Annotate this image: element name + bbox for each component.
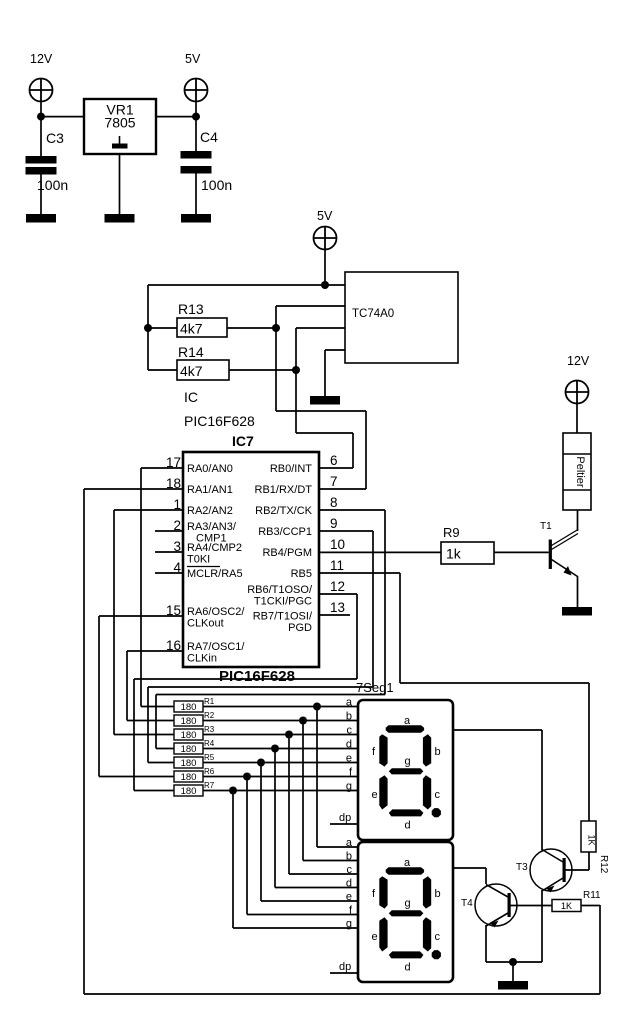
pin 9 RB3/CCP1 label xyxy=(258,516,337,538)
power symbol 5V (sensor) xyxy=(314,209,337,250)
wire segment f vertical xyxy=(246,777,248,915)
svg-text:b: b xyxy=(435,746,441,758)
resistor R3 180 xyxy=(174,725,215,741)
svg-text:12V: 12V xyxy=(30,52,53,66)
wire RB1 riser xyxy=(365,411,367,489)
wire segment f to display2 xyxy=(247,914,358,916)
wire RA0 vertical to R1 xyxy=(140,468,142,707)
svg-text:RA0/AN0: RA0/AN0 xyxy=(187,463,233,475)
pin 16 RA7/OSC1/ label xyxy=(166,638,245,665)
svg-text:6: 6 xyxy=(330,453,338,468)
display 7Seg1 digit1 decimal point xyxy=(432,808,441,817)
wire SDA vertical riser xyxy=(275,306,277,411)
display 7Seg1 digit1 segment a xyxy=(386,725,424,733)
display 7Seg1 digit2 segment c xyxy=(423,917,431,951)
wire into R5 xyxy=(148,762,174,764)
svg-text:T1: T1 xyxy=(540,521,552,532)
display 7Seg1 digit1 segment g xyxy=(389,768,424,774)
pin 4 MCLR/RA5 label xyxy=(173,560,242,580)
svg-text:PIC16F628: PIC16F628 xyxy=(219,668,295,685)
wire pin7 RB1 xyxy=(319,488,366,490)
wire pin2 stub xyxy=(155,530,183,532)
power symbol 12V (input) xyxy=(30,52,53,102)
pin 6 RB0/INT label xyxy=(270,453,338,475)
wire bottom bus RA1 to R11 xyxy=(84,993,600,995)
svg-text:RA1/AN1: RA1/AN1 xyxy=(187,484,233,496)
wire 5V rail to TC74A0 VCC xyxy=(148,284,345,286)
wire 12V to C3 xyxy=(40,102,42,157)
svg-text:IC: IC xyxy=(184,389,198,405)
svg-text:180: 180 xyxy=(181,744,197,755)
svg-text:c: c xyxy=(347,864,353,876)
wire R12 to T3 base xyxy=(588,852,590,870)
power symbol 5V (output) xyxy=(185,52,208,102)
wire RA2 vertical to R3 xyxy=(113,510,115,735)
svg-text:e: e xyxy=(372,789,378,801)
svg-text:5V: 5V xyxy=(185,52,201,66)
wire pin4 stub xyxy=(155,572,183,574)
wire into R4 xyxy=(156,748,174,750)
svg-text:a: a xyxy=(346,697,353,709)
wire segment d to display2 xyxy=(275,887,358,889)
svg-text:RB4/PGM: RB4/PGM xyxy=(262,547,312,559)
node 5V sensor rail xyxy=(321,281,329,289)
svg-text:T3: T3 xyxy=(516,862,528,873)
svg-text:Peltier: Peltier xyxy=(574,456,586,488)
svg-text:RB7/T1OSI/: RB7/T1OSI/ xyxy=(253,611,313,623)
svg-text:R6: R6 xyxy=(204,767,215,776)
wire 5V to rail xyxy=(324,250,326,285)
pin 13 RB7/T1OSI/ label xyxy=(253,600,345,634)
resistor R11 1K xyxy=(552,890,601,912)
wire to ground xyxy=(512,962,514,981)
svg-text:RA2/AN2: RA2/AN2 xyxy=(187,505,233,517)
svg-text:180: 180 xyxy=(181,702,197,713)
wire rail to R14 xyxy=(148,369,177,371)
display 7Seg1 digit2 segment d xyxy=(389,951,424,958)
wire segment c vertical xyxy=(288,735,290,875)
wire RB0 riser xyxy=(352,433,354,468)
wire R6 to display1 pin f xyxy=(203,776,358,778)
svg-text:c: c xyxy=(435,789,441,801)
svg-text:RA6/OSC2/: RA6/OSC2/ xyxy=(187,606,245,618)
node segment e xyxy=(257,759,265,767)
pin 1 RA2/AN2 label xyxy=(173,497,232,517)
node 5V rail junction xyxy=(192,113,200,121)
wire T4 emitter down xyxy=(485,925,487,962)
wire rail to R13 xyxy=(148,327,177,329)
svg-text:R4: R4 xyxy=(204,739,215,748)
svg-text:a: a xyxy=(404,715,411,727)
display 7Seg1 digit2 segment e xyxy=(379,917,387,951)
svg-text:RA7/OSC1/: RA7/OSC1/ xyxy=(187,641,245,653)
svg-text:8: 8 xyxy=(330,495,338,510)
svg-text:d: d xyxy=(346,739,352,751)
wire SDA to TC74A0 xyxy=(276,305,345,307)
svg-text:R12: R12 xyxy=(598,855,609,874)
wire emitters join xyxy=(486,961,542,963)
svg-text:e: e xyxy=(346,891,352,903)
wire segment e vertical xyxy=(260,763,262,902)
wire 12V to VR1 input xyxy=(41,116,85,118)
svg-text:R11: R11 xyxy=(583,890,601,901)
resistor R7 180 xyxy=(174,781,215,797)
display 7Seg1 digit1 segment f xyxy=(379,734,387,766)
svg-text:d: d xyxy=(405,961,411,973)
pin 15 RA6/OSC2/ label xyxy=(166,603,245,630)
node 12V rail junction xyxy=(37,113,45,121)
wire T4 base to R11 xyxy=(511,905,553,907)
wire pin1 RA2 xyxy=(114,509,183,511)
wire R7 to display1 pin g xyxy=(203,790,358,792)
svg-text:R9: R9 xyxy=(443,525,460,540)
display 7Seg1 digit2 segment a xyxy=(386,867,424,875)
svg-text:R3: R3 xyxy=(204,725,215,734)
svg-text:RB0/INT: RB0/INT xyxy=(270,463,312,475)
wire T3 emitter down xyxy=(541,890,543,962)
wire RB6 across under PIC xyxy=(134,678,357,680)
wire pin18 RA1 xyxy=(84,488,183,490)
pin 8 RB2/TX/CK label xyxy=(255,495,337,517)
svg-text:R7: R7 xyxy=(204,781,215,790)
wire 5V rail down to pullups xyxy=(147,285,149,370)
display 7Seg1 digit2 outline xyxy=(358,842,453,982)
pin 10 RB4/PGM label xyxy=(262,537,345,559)
display 7Seg1 digit2 segment g xyxy=(389,910,424,916)
power symbol 12V (Peltier) xyxy=(566,354,590,404)
wire segment c to display2 xyxy=(289,873,358,875)
pin 12 RB6/T1OSO/ label xyxy=(247,579,345,608)
wire RB3 down to R5 xyxy=(147,687,149,763)
svg-text:RB6/T1OSO/: RB6/T1OSO/ xyxy=(247,584,313,596)
resistor R14 4k7 xyxy=(177,344,229,380)
wire RA7 vertical to R2 xyxy=(126,651,128,721)
voltage regulator VR1 7805 xyxy=(84,99,156,154)
wire segment d vertical xyxy=(274,749,276,888)
pin 11 RB5 label xyxy=(291,558,344,580)
pin 2 RA3/AN3/ label xyxy=(173,518,236,545)
svg-text:180: 180 xyxy=(181,758,197,769)
wire RB6 vertical down xyxy=(356,594,358,679)
display 7Seg1 digit1 segment c xyxy=(423,775,431,809)
svg-text:g: g xyxy=(346,781,352,793)
display 7Seg1 digit2 segment f xyxy=(379,876,387,908)
svg-text:a: a xyxy=(404,857,411,869)
wire VR1 ground pin xyxy=(119,154,121,214)
wire segment a to display2 xyxy=(317,846,358,848)
wire segment g vertical xyxy=(232,791,234,929)
svg-text:RB3/CCP1: RB3/CCP1 xyxy=(258,526,312,538)
svg-text:CLKout: CLKout xyxy=(187,618,224,630)
wire R14 to SCL node xyxy=(229,369,296,371)
wire RB2 down to R4 xyxy=(155,695,157,749)
wire R13 to SDA node xyxy=(227,327,276,329)
wire pin6 RB0 xyxy=(319,467,353,469)
wire into R1 xyxy=(141,706,174,708)
wire pin11 RB5 xyxy=(319,572,400,574)
wire pin13 stub xyxy=(319,614,350,616)
wire T1 emitter to ground xyxy=(577,576,579,607)
wire PIC RB4 to R9 xyxy=(319,551,441,553)
display 7Seg1 digit1 segment e xyxy=(379,775,387,809)
svg-text:R2: R2 xyxy=(204,711,215,720)
svg-text:12: 12 xyxy=(330,579,345,594)
display 7Seg1 digit2 segment b xyxy=(423,876,431,908)
wire segment a vertical xyxy=(316,707,318,848)
wire display2 common down to T4 xyxy=(485,868,487,884)
svg-text:5V: 5V xyxy=(317,209,333,223)
svg-text:MCLR/RA5: MCLR/RA5 xyxy=(187,568,243,580)
svg-text:TC74A0: TC74A0 xyxy=(352,308,394,320)
resistor R1 180 xyxy=(174,697,215,713)
svg-text:IC7: IC7 xyxy=(232,433,254,449)
svg-text:CLKin: CLKin xyxy=(187,653,217,665)
svg-text:180: 180 xyxy=(181,786,197,797)
wire down to R12 top xyxy=(588,683,590,821)
svg-text:c: c xyxy=(347,725,353,737)
wire R9 to T1 base xyxy=(494,551,549,553)
ground (T3/T4) xyxy=(498,981,528,990)
svg-text:180: 180 xyxy=(181,730,197,741)
wire display1 common down to T3 xyxy=(541,730,543,850)
svg-text:dp: dp xyxy=(339,812,351,824)
pin 3 RA4/CMP2 label xyxy=(173,539,242,566)
wire bus up to R11 xyxy=(599,905,601,994)
transistor T4 xyxy=(461,884,517,928)
transistor T3 xyxy=(516,849,572,893)
wire RB3 vertical down xyxy=(372,531,374,687)
wire into T3 base xyxy=(565,869,589,871)
wire C4 to ground xyxy=(195,173,197,214)
ground (T1) xyxy=(562,607,592,616)
wire C3 to ground xyxy=(40,174,42,214)
resistor R4 180 xyxy=(174,739,215,755)
wire RB5 across to R12 xyxy=(400,682,589,684)
svg-text:b: b xyxy=(346,711,352,723)
svg-text:RB5: RB5 xyxy=(291,568,312,580)
svg-text:11: 11 xyxy=(330,558,344,573)
svg-text:C3: C3 xyxy=(46,130,64,146)
svg-text:c: c xyxy=(435,931,441,943)
pin 17 RA0/AN0 label xyxy=(166,455,233,475)
wire pin16 RA7 xyxy=(127,650,183,652)
wire dp stub display1 xyxy=(330,823,358,825)
wire into R3 xyxy=(114,734,174,736)
wire pin8 RB2 xyxy=(319,509,385,511)
node segment g xyxy=(229,787,237,795)
node SCL xyxy=(292,366,300,374)
svg-text:dp: dp xyxy=(339,961,351,973)
wire into R7 xyxy=(134,790,174,792)
pin 18 RA1/AN1 label xyxy=(166,476,233,496)
svg-text:b: b xyxy=(435,888,441,900)
wire SCL to TC74A0 xyxy=(296,327,345,329)
wire R3 to display1 pin c xyxy=(203,734,358,736)
node segment f xyxy=(243,773,251,781)
svg-text:7805: 7805 xyxy=(104,115,135,131)
ground (VR1) xyxy=(105,214,135,223)
wire SCL vertical riser xyxy=(295,328,297,433)
svg-text:R5: R5 xyxy=(204,753,215,762)
svg-text:a: a xyxy=(346,837,353,849)
wire segment b to display2 xyxy=(303,860,358,862)
resistor R13 4k7 xyxy=(177,301,227,337)
svg-text:180: 180 xyxy=(181,772,197,783)
resistor R12 1K xyxy=(581,821,609,874)
svg-text:g: g xyxy=(346,918,352,930)
svg-text:13: 13 xyxy=(330,600,345,615)
wire RB0 jog to SCL xyxy=(296,432,353,434)
svg-text:d: d xyxy=(405,819,411,831)
capacitor C4 100n xyxy=(181,129,233,193)
resistor R6 180 xyxy=(174,767,215,783)
svg-text:1k: 1k xyxy=(446,546,462,562)
display 7Seg1 digit2 decimal point xyxy=(432,950,441,959)
wire R1 to display1 pin a xyxy=(203,706,358,708)
svg-text:RB1/RX/DT: RB1/RX/DT xyxy=(255,484,313,496)
svg-text:PGD: PGD xyxy=(288,622,312,634)
wire pin15 RA6 xyxy=(99,615,183,617)
wire R4 to display1 pin d xyxy=(203,748,358,750)
svg-text:7Seg1: 7Seg1 xyxy=(356,680,394,695)
node emitter junction xyxy=(509,958,517,966)
temperature sensor TC74A0 xyxy=(345,272,458,363)
svg-text:RB2/TX/CK: RB2/TX/CK xyxy=(255,505,313,517)
resistor R9 1k xyxy=(441,525,494,564)
wire RB1 jog to SDA xyxy=(276,410,366,412)
wire RB2 across under PIC xyxy=(156,694,385,696)
transistor T1 xyxy=(540,521,578,577)
wire RB2 vertical down xyxy=(384,510,386,695)
wire RA6 vertical to R6 xyxy=(98,616,100,777)
wire Peltier to T1 collector xyxy=(577,510,579,531)
wire 12V to Peltier xyxy=(576,404,578,433)
wire R11 to bus xyxy=(581,905,600,907)
node SDA xyxy=(272,324,280,332)
node segment d xyxy=(271,745,279,753)
Peltier element xyxy=(563,433,591,510)
wire TC74A0 ground pin xyxy=(325,349,345,351)
svg-text:1K: 1K xyxy=(561,901,572,911)
wire into R6 xyxy=(99,776,174,778)
wire into R2 xyxy=(127,720,174,722)
svg-text:R13: R13 xyxy=(178,301,204,317)
svg-text:4k7: 4k7 xyxy=(180,321,203,337)
node segment c xyxy=(285,731,293,739)
svg-text:1K: 1K xyxy=(587,834,597,845)
wire R5 to display1 pin e xyxy=(203,762,358,764)
wire pin3 stub xyxy=(155,551,183,553)
wire pin12 RB6 xyxy=(319,593,357,595)
wire RB3 across under PIC xyxy=(148,686,373,688)
resistor R2 180 xyxy=(174,711,215,727)
pin 7 RB1/RX/DT label xyxy=(255,474,338,496)
svg-text:T1CKI/PGC: T1CKI/PGC xyxy=(254,596,312,608)
display 7Seg1 digit1 segment d xyxy=(389,809,424,816)
display 7Seg1 digit1 segment b xyxy=(423,734,431,766)
ground (C3) xyxy=(26,214,56,223)
svg-text:180: 180 xyxy=(181,716,197,727)
capacitor C3 100n xyxy=(26,130,69,193)
ground (TC74A0) xyxy=(310,396,340,405)
wire segment g to display2 xyxy=(233,927,358,929)
wire RB6 down to R7 xyxy=(133,679,135,791)
svg-text:R1: R1 xyxy=(204,697,215,706)
wire pin9 RB3 xyxy=(319,530,373,532)
wire 5V node to C4 xyxy=(195,102,197,152)
svg-text:T0KI: T0KI xyxy=(187,554,210,566)
wire display2 common xyxy=(453,867,486,869)
wire dp stub display2 xyxy=(330,972,358,974)
wire VR1 output to 5V node xyxy=(156,116,196,118)
svg-text:7: 7 xyxy=(330,474,338,489)
svg-text:R14: R14 xyxy=(178,344,204,360)
svg-text:e: e xyxy=(372,931,378,943)
svg-text:PIC16F628: PIC16F628 xyxy=(184,413,255,429)
svg-text:e: e xyxy=(346,753,352,765)
wire RB5 vertical down xyxy=(399,573,401,683)
wire R2 to display1 pin b xyxy=(203,720,358,722)
svg-text:g: g xyxy=(405,898,411,910)
wire down to ground xyxy=(324,350,326,396)
svg-text:RA4/CMP2: RA4/CMP2 xyxy=(187,542,242,554)
svg-text:10: 10 xyxy=(330,537,345,552)
svg-text:12V: 12V xyxy=(567,354,590,368)
node R13 left junction xyxy=(144,324,152,332)
wire RA1 long vertical xyxy=(83,489,85,994)
ground (C4) xyxy=(181,214,211,223)
svg-text:9: 9 xyxy=(330,516,338,531)
svg-text:g: g xyxy=(405,756,411,768)
svg-text:RA3/AN3/: RA3/AN3/ xyxy=(187,521,237,533)
resistor R5 180 xyxy=(174,753,215,769)
svg-text:C4: C4 xyxy=(200,129,218,145)
wire segment e to display2 xyxy=(261,900,358,902)
node segment a xyxy=(313,703,321,711)
wire display1 common xyxy=(453,729,542,731)
node segment b xyxy=(299,717,307,725)
wire segment b vertical xyxy=(302,721,304,861)
svg-text:4k7: 4k7 xyxy=(180,363,203,379)
svg-text:b: b xyxy=(346,851,352,863)
svg-text:d: d xyxy=(346,878,352,890)
svg-text:T4: T4 xyxy=(461,898,473,909)
display 7Seg1 digit1 outline xyxy=(358,700,453,840)
svg-text:100n: 100n xyxy=(201,177,232,193)
microcontroller IC7 PIC16F628 xyxy=(183,452,319,667)
wire pin17 RA0 xyxy=(141,467,183,469)
